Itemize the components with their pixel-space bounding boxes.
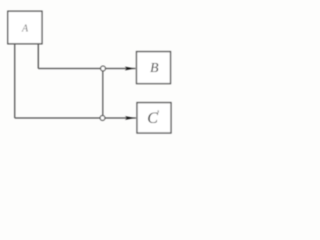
block A <box>8 11 42 44</box>
wire bottom horizontal into C <box>15 117 136 119</box>
label B <box>150 61 159 76</box>
node junction bottom <box>100 116 105 121</box>
svg-text:B: B <box>150 61 159 76</box>
label A <box>21 24 29 35</box>
arrowhead into C <box>125 116 135 120</box>
wire top horizontal into B <box>38 68 135 70</box>
block B <box>137 52 171 84</box>
svg-text:C: C <box>147 110 158 127</box>
block C <box>137 103 171 133</box>
stray scan tick near C <box>158 110 159 112</box>
node junction top <box>101 66 106 71</box>
wire from A right side down to top bus <box>37 44 39 69</box>
wire from A left side down to bottom bus <box>14 44 16 118</box>
label C <box>147 110 158 127</box>
wire vertical connector between junctions <box>102 69 104 119</box>
svg-text:A: A <box>21 24 29 35</box>
arrowhead into B <box>125 67 135 71</box>
